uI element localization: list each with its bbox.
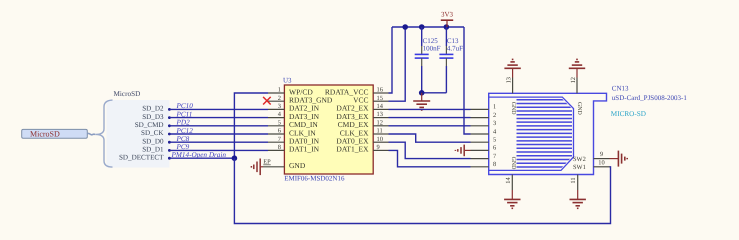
wire caps bottom rail — [422, 92, 447, 94]
capacitor C13 — [439, 27, 463, 93]
wire SD_D0 — [168, 141, 268, 144]
wire DAT1 jog — [389, 150, 471, 166]
svg-text:13: 13 — [377, 111, 383, 118]
U3 pin 15 — [373, 95, 388, 102]
svg-text:8: 8 — [493, 161, 496, 168]
ground EP — [251, 159, 263, 176]
wire SD_CK — [168, 133, 268, 136]
svg-text:MicroSD: MicroSD — [114, 90, 141, 98]
wire 3V3 rail — [392, 26, 464, 28]
wire SD_D3 — [168, 116, 268, 119]
connector pin 9 SW2 — [573, 151, 609, 163]
wire CMD row — [389, 125, 471, 127]
no-connect X pin 2 — [263, 97, 271, 105]
ground connector pin6 — [455, 145, 470, 157]
connector pin 13 top — [505, 77, 512, 93]
U3 pin 7 — [268, 136, 284, 143]
ground pin 13 — [504, 59, 520, 77]
svg-text:16: 16 — [377, 87, 383, 94]
svg-text:2: 2 — [493, 112, 496, 119]
svg-text:GND: GND — [510, 157, 516, 171]
svg-text:SD_D2: SD_D2 — [142, 105, 164, 113]
svg-text:6: 6 — [278, 128, 281, 135]
svg-text:9: 9 — [377, 144, 380, 151]
U3 pin 6 — [268, 128, 284, 135]
harness background — [107, 100, 170, 168]
svg-text:10: 10 — [377, 136, 383, 143]
wire DAT2 row — [389, 108, 471, 110]
ground pin 9 — [610, 151, 628, 167]
SD card drawing — [489, 97, 574, 170]
connector pin 8 — [471, 161, 497, 168]
harness brace — [96, 100, 113, 167]
connector pin 1 — [471, 104, 497, 111]
svg-text:8: 8 — [278, 144, 281, 151]
ground pin 14 — [504, 190, 520, 208]
svg-text:uSD-Card_PJS008-2003-1: uSD-Card_PJS008-2003-1 — [612, 94, 688, 102]
connector pin 11 bottom — [570, 175, 578, 191]
svg-text:14: 14 — [505, 177, 512, 184]
connector pin 2 — [471, 112, 497, 119]
svg-text:EP: EP — [263, 159, 271, 166]
wire DAT3 row — [389, 117, 471, 119]
svg-text:12: 12 — [377, 119, 383, 126]
U3 pin 11 — [373, 128, 388, 135]
connector CN13 body — [489, 84, 688, 174]
ground pin 11 — [570, 190, 586, 208]
svg-text:10: 10 — [598, 159, 604, 166]
U3 pin 1 — [268, 87, 284, 94]
svg-text:15: 15 — [377, 95, 383, 102]
svg-text:SD_D1: SD_D1 — [142, 146, 164, 154]
svg-text:SW2: SW2 — [573, 156, 586, 163]
capacitor C125 — [415, 27, 441, 93]
svg-text:12: 12 — [570, 77, 577, 83]
svg-text:3: 3 — [278, 103, 281, 110]
svg-text:MicroSD: MicroSD — [30, 130, 60, 139]
svg-text:3: 3 — [493, 120, 496, 127]
U3 pin EP — [263, 159, 284, 167]
connector pin 10 SW1 — [573, 159, 609, 171]
ground caps — [413, 93, 430, 110]
wire pin16 to rail — [389, 27, 393, 93]
wire CLK jog — [389, 134, 471, 142]
svg-text:GND: GND — [289, 161, 306, 170]
junction node PM14 — [232, 155, 238, 161]
junction rail C125 — [419, 24, 425, 30]
svg-text:CN13: CN13 — [612, 84, 629, 92]
harness tail squiggle — [87, 133, 95, 135]
svg-text:EMIF06-MSD02N16: EMIF06-MSD02N16 — [284, 175, 345, 183]
svg-text:1: 1 — [278, 87, 281, 94]
svg-text:GND: GND — [576, 102, 582, 116]
wire detect loop bottom — [234, 158, 610, 223]
svg-text:3V3: 3V3 — [441, 11, 454, 19]
op-amp U3 body — [283, 76, 373, 182]
SD card contacts — [517, 100, 573, 167]
U3 pin 5 — [268, 119, 284, 126]
junction rail C13 — [444, 24, 450, 30]
svg-text:SW1: SW1 — [573, 164, 586, 171]
wire SD_D1 — [168, 149, 268, 152]
svg-text:DAT1_EX: DAT1_EX — [336, 145, 369, 154]
connector pin 14 bottom — [505, 175, 513, 191]
connector pin 3 — [471, 120, 497, 127]
svg-text:4.7uF: 4.7uF — [447, 44, 463, 52]
svg-text:SD_D3: SD_D3 — [142, 113, 164, 121]
wire pin15 to rail — [389, 27, 406, 101]
wire VCC drop to connector — [464, 27, 471, 134]
wire SD_DECTECT — [168, 157, 234, 160]
svg-text:MICRO-SD: MICRO-SD — [611, 110, 646, 118]
svg-text:SD_CMD: SD_CMD — [135, 121, 164, 129]
svg-text:9: 9 — [600, 151, 603, 158]
svg-text:11: 11 — [377, 128, 383, 135]
svg-text:1: 1 — [493, 104, 496, 111]
svg-text:U3: U3 — [283, 76, 292, 84]
U3 pin 8 — [268, 144, 284, 151]
svg-text:13: 13 — [505, 77, 512, 83]
connector pin 12 top — [570, 77, 577, 93]
U3 pin 2 — [268, 95, 284, 102]
svg-text:100nF: 100nF — [423, 44, 441, 52]
svg-text:GND: GND — [510, 102, 516, 116]
svg-text:5: 5 — [493, 137, 496, 144]
connector pin 6 — [471, 145, 497, 152]
U3 pin 10 — [373, 136, 388, 143]
ground pin 12 — [569, 59, 585, 77]
svg-text:6: 6 — [493, 145, 496, 152]
U3 pin 16 — [373, 87, 388, 94]
junction caps ground — [419, 90, 425, 96]
svg-text:SD_D0: SD_D0 — [142, 137, 164, 145]
svg-text:5: 5 — [278, 119, 281, 126]
U3 pin 13 — [373, 111, 388, 118]
wire WP/CD net vertical — [234, 93, 268, 158]
wire DAT0 jog — [389, 142, 471, 158]
U3 pin 9 — [373, 144, 388, 151]
U3 pin 3 — [268, 103, 284, 110]
power port 3V3 — [441, 11, 454, 27]
connector pin 7 — [471, 153, 498, 160]
connector pin 4 — [471, 128, 498, 135]
connector pin 5 — [471, 137, 497, 144]
svg-text:SD_DECTECT: SD_DECTECT — [119, 153, 164, 161]
junction rail pin15 — [402, 24, 408, 30]
U3 pin 12 — [373, 119, 388, 126]
harness connector MicroSD label plate — [22, 129, 88, 138]
svg-text:DAT1_IN: DAT1_IN — [289, 145, 320, 154]
svg-text:SD_CK: SD_CK — [141, 129, 164, 137]
svg-text:11: 11 — [570, 177, 577, 183]
svg-text:2: 2 — [278, 95, 281, 102]
wire SD_D2 — [168, 108, 268, 111]
svg-text:14: 14 — [377, 103, 384, 110]
U3 pin 4 — [268, 111, 284, 118]
wire SD_CMD — [168, 124, 268, 127]
U3 pin 14 — [373, 103, 388, 110]
